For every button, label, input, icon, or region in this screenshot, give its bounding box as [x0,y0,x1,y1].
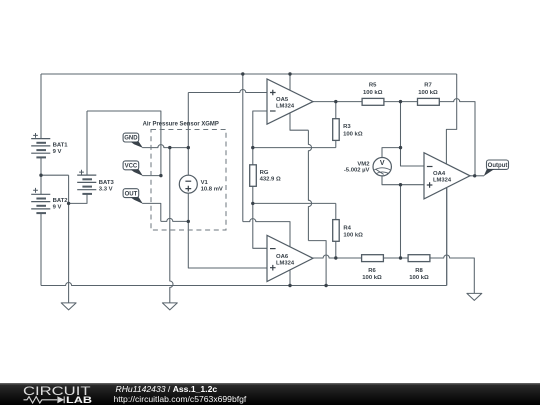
resistor R6 [362,255,384,262]
wire OA6 output [313,255,362,258]
wire R3 bottom stub [335,140,337,147]
wire OA4 V- pin [446,188,448,286]
svg-text:http://circuitlab.com/c5763x69: http://circuitlab.com/c5763x699bfgf [114,394,247,404]
flag OUT [123,189,139,198]
wire V1 bottom to OA6 [188,193,267,268]
wire midpoint to ground G1 [68,175,70,303]
wire OUT to V1 plus [161,218,189,221]
svg-text:BAT2: BAT2 [53,198,69,204]
svg-text:R8: R8 [415,268,423,274]
wire BAT3 bottom link [69,194,87,203]
wire R5 to R7 [384,101,418,103]
svg-text:R6: R6 [368,268,376,274]
wire RG bottom chain to OA6 minus [253,186,267,248]
wire VM2 net upper riser [401,102,425,166]
svg-text:10.8 mV: 10.8 mV [201,186,223,192]
svg-text:VCC: VCC [125,164,138,170]
wire OA6 V+ jog [243,219,290,247]
ground G2 [162,303,177,310]
wire R7 to feedback corner [439,99,475,176]
battery BAT3 [77,170,96,194]
wire OA5 minus input [253,111,267,165]
svg-text:R3: R3 [343,124,351,130]
svg-text:V: V [380,160,385,167]
source V1 [179,175,197,193]
flag VCC tail [131,169,143,176]
svg-text:LAB: LAB [66,395,92,405]
svg-text:100 kΩ: 100 kΩ [363,90,383,96]
wire OA6 V- pin [289,270,291,285]
wire top +9V rail [41,73,457,75]
resistor R7 [418,98,440,105]
op-amp OA5 LM324 [267,79,313,124]
wire VM2 top stub [382,148,401,158]
svg-text:100 kΩ: 100 kΩ [343,233,363,239]
svg-text:OA6: OA6 [276,254,289,260]
battery BAT1 [31,133,50,157]
svg-text:R4: R4 [343,225,351,231]
svg-text:100 kΩ: 100 kΩ [362,275,382,281]
svg-text:LM324: LM324 [276,261,295,267]
ground G1 [61,303,76,310]
wire R4 top stub [335,203,337,219]
svg-text:RHu1142433 / Ass.1_1.2c: RHu1142433 / Ass.1_1.2c [116,384,218,394]
wire OA4 V+ from top rail [446,74,456,164]
svg-text:-5.002 µV: -5.002 µV [344,168,370,174]
svg-text:V1: V1 [201,180,209,186]
wire OA5 V- jog [290,113,308,130]
svg-text:100 kΩ: 100 kΩ [418,90,438,96]
svg-text:Output: Output [488,163,508,169]
op-amp OA6 LM324 [267,235,313,281]
svg-text:RG: RG [260,170,269,176]
wire OA5 feedback horizontal [253,147,336,149]
wire OA5 V+ pin [289,74,291,91]
wire R8 to ground corner [430,255,474,293]
wire OUT flag jog [142,203,160,221]
svg-text:GND: GND [124,136,138,142]
wire OA4 output [470,175,484,177]
wire R6 to R8 [383,257,408,259]
wire -9V rail right riser [446,188,448,286]
flag GND [123,133,139,142]
ground G3 [467,293,482,300]
voltmeter VM2 [373,158,391,176]
wire R3 top stub [335,102,337,119]
wire BAT3 plus to VCC riser [87,111,161,176]
footer logo resistor diode symbol [24,396,65,403]
wire -9V bottom rail [41,283,447,286]
footer bar [0,383,540,405]
flag Output [487,160,509,169]
flag Output tail [484,169,495,176]
svg-text:3.3 V: 3.3 V [99,187,113,193]
battery BAT2 [31,188,50,213]
svg-text:100 kΩ: 100 kΩ [409,275,429,281]
wire V1 top to OA5 plus riser [187,93,189,176]
wire OA5 V- to rail [308,241,326,286]
svg-text:OA5: OA5 [276,97,289,103]
svg-text:R5: R5 [369,82,377,88]
svg-text:OUT: OUT [125,191,138,197]
resistor R5 [362,98,384,105]
wire BAT3 top stub [86,111,88,175]
wire OA5 V- drop [308,130,311,240]
flag GND tail [131,142,143,148]
op-amp OA4 LM324 [424,153,470,199]
svg-text:BAT3: BAT3 [99,180,115,186]
svg-text:BAT1: BAT1 [53,142,69,148]
wire battery midpoint horizontal [41,174,69,176]
svg-text:9 V: 9 V [53,149,62,155]
wire OA5 output [313,101,362,103]
svg-text:LM324: LM324 [433,177,452,183]
resistor R4 [333,220,340,242]
svg-text:LM324: LM324 [276,104,295,110]
wire R4 bottom stub [335,241,337,258]
wire VM2 bottom stub [382,176,401,185]
resistor R8 [408,255,430,262]
wire OA4 plus input [401,184,425,186]
flag VCC [123,161,139,170]
flag OUT tail [131,197,143,204]
wire GND net to ground G2 [170,148,173,303]
svg-text:Air Pressure Sensor XGMP: Air Pressure Sensor XGMP [143,122,219,128]
wire GND flag net [142,145,188,148]
wire VCC flag stub [142,175,161,177]
wire OA6 V+ rail drop [242,74,244,222]
resistor RG [250,165,257,187]
wire VM2 net lower riser [400,185,402,258]
svg-text:432.9 Ω: 432.9 Ω [260,176,281,182]
wire left rail BAT1 top [40,74,42,139]
wire RG to R4 horizontal [253,202,336,204]
sensor box Air Pressure Sensor XGMP [151,130,226,231]
svg-text:R7: R7 [424,82,432,88]
svg-text:OA4: OA4 [433,171,446,177]
svg-text:100 kΩ: 100 kΩ [343,131,363,137]
resistor R3 [333,119,340,141]
wire BAT2 bottom to -9V rail [40,213,42,285]
svg-text:9 V: 9 V [53,205,62,211]
wire OA5 plus input [188,90,267,93]
wire BAT1 to BAT2 [40,157,42,194]
